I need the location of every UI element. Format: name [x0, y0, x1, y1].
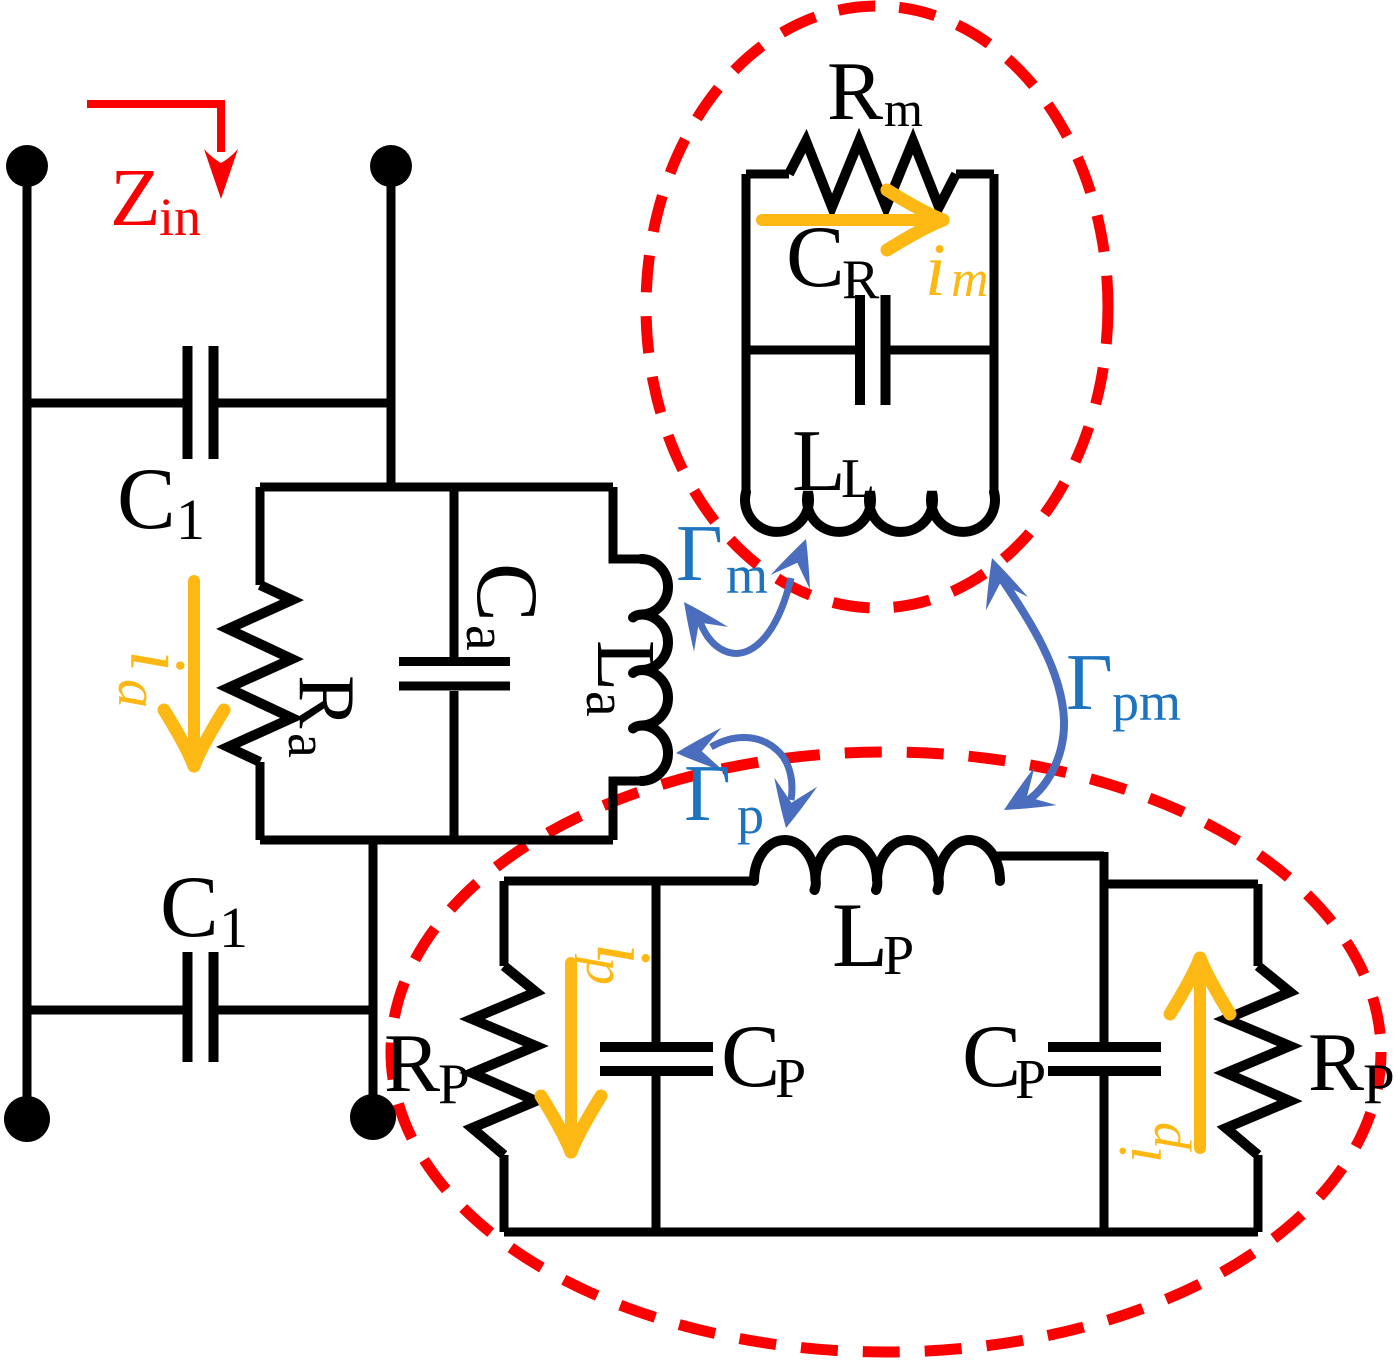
- svg-text:i: i: [925, 229, 946, 312]
- svg-text:C: C: [458, 563, 555, 622]
- svg-text:Γ: Γ: [684, 748, 731, 838]
- svg-text:p: p: [737, 785, 764, 845]
- svg-text:C: C: [962, 1008, 1021, 1106]
- svg-text:P: P: [1015, 1049, 1046, 1111]
- svg-text:C: C: [786, 209, 845, 306]
- svg-text:Z: Z: [110, 151, 161, 243]
- svg-text:Γ: Γ: [1066, 637, 1113, 727]
- svg-text:P: P: [775, 1048, 806, 1110]
- svg-text:R: R: [384, 1017, 440, 1110]
- svg-text:C: C: [117, 451, 176, 548]
- svg-text:a: a: [574, 691, 639, 717]
- svg-text:m: m: [884, 81, 923, 137]
- svg-text:L: L: [832, 884, 888, 986]
- svg-text:m: m: [951, 251, 989, 308]
- svg-text:C: C: [160, 859, 219, 956]
- svg-text:R: R: [842, 249, 880, 311]
- svg-text:L: L: [579, 640, 672, 691]
- svg-text:pm: pm: [1112, 672, 1181, 732]
- svg-text:P: P: [1363, 1053, 1395, 1116]
- svg-text:R: R: [1308, 1016, 1364, 1109]
- svg-text:R: R: [282, 675, 370, 729]
- svg-text:L: L: [792, 413, 846, 510]
- svg-text:P: P: [883, 925, 914, 987]
- svg-text:L: L: [841, 448, 875, 510]
- svg-text:i: i: [113, 650, 201, 672]
- svg-text:m: m: [726, 545, 768, 605]
- svg-text:R: R: [827, 45, 883, 138]
- svg-text:P: P: [438, 1053, 470, 1116]
- svg-text:1: 1: [176, 487, 205, 552]
- svg-text:a: a: [276, 733, 338, 758]
- svg-text:a: a: [454, 625, 519, 651]
- svg-text:p: p: [1132, 1122, 1192, 1153]
- svg-text:in: in: [159, 187, 201, 247]
- svg-text:1: 1: [219, 895, 248, 960]
- svg-text:C: C: [721, 1008, 780, 1106]
- svg-text:p: p: [574, 953, 636, 985]
- svg-text:Γ: Γ: [676, 508, 723, 598]
- svg-text:a: a: [106, 679, 171, 708]
